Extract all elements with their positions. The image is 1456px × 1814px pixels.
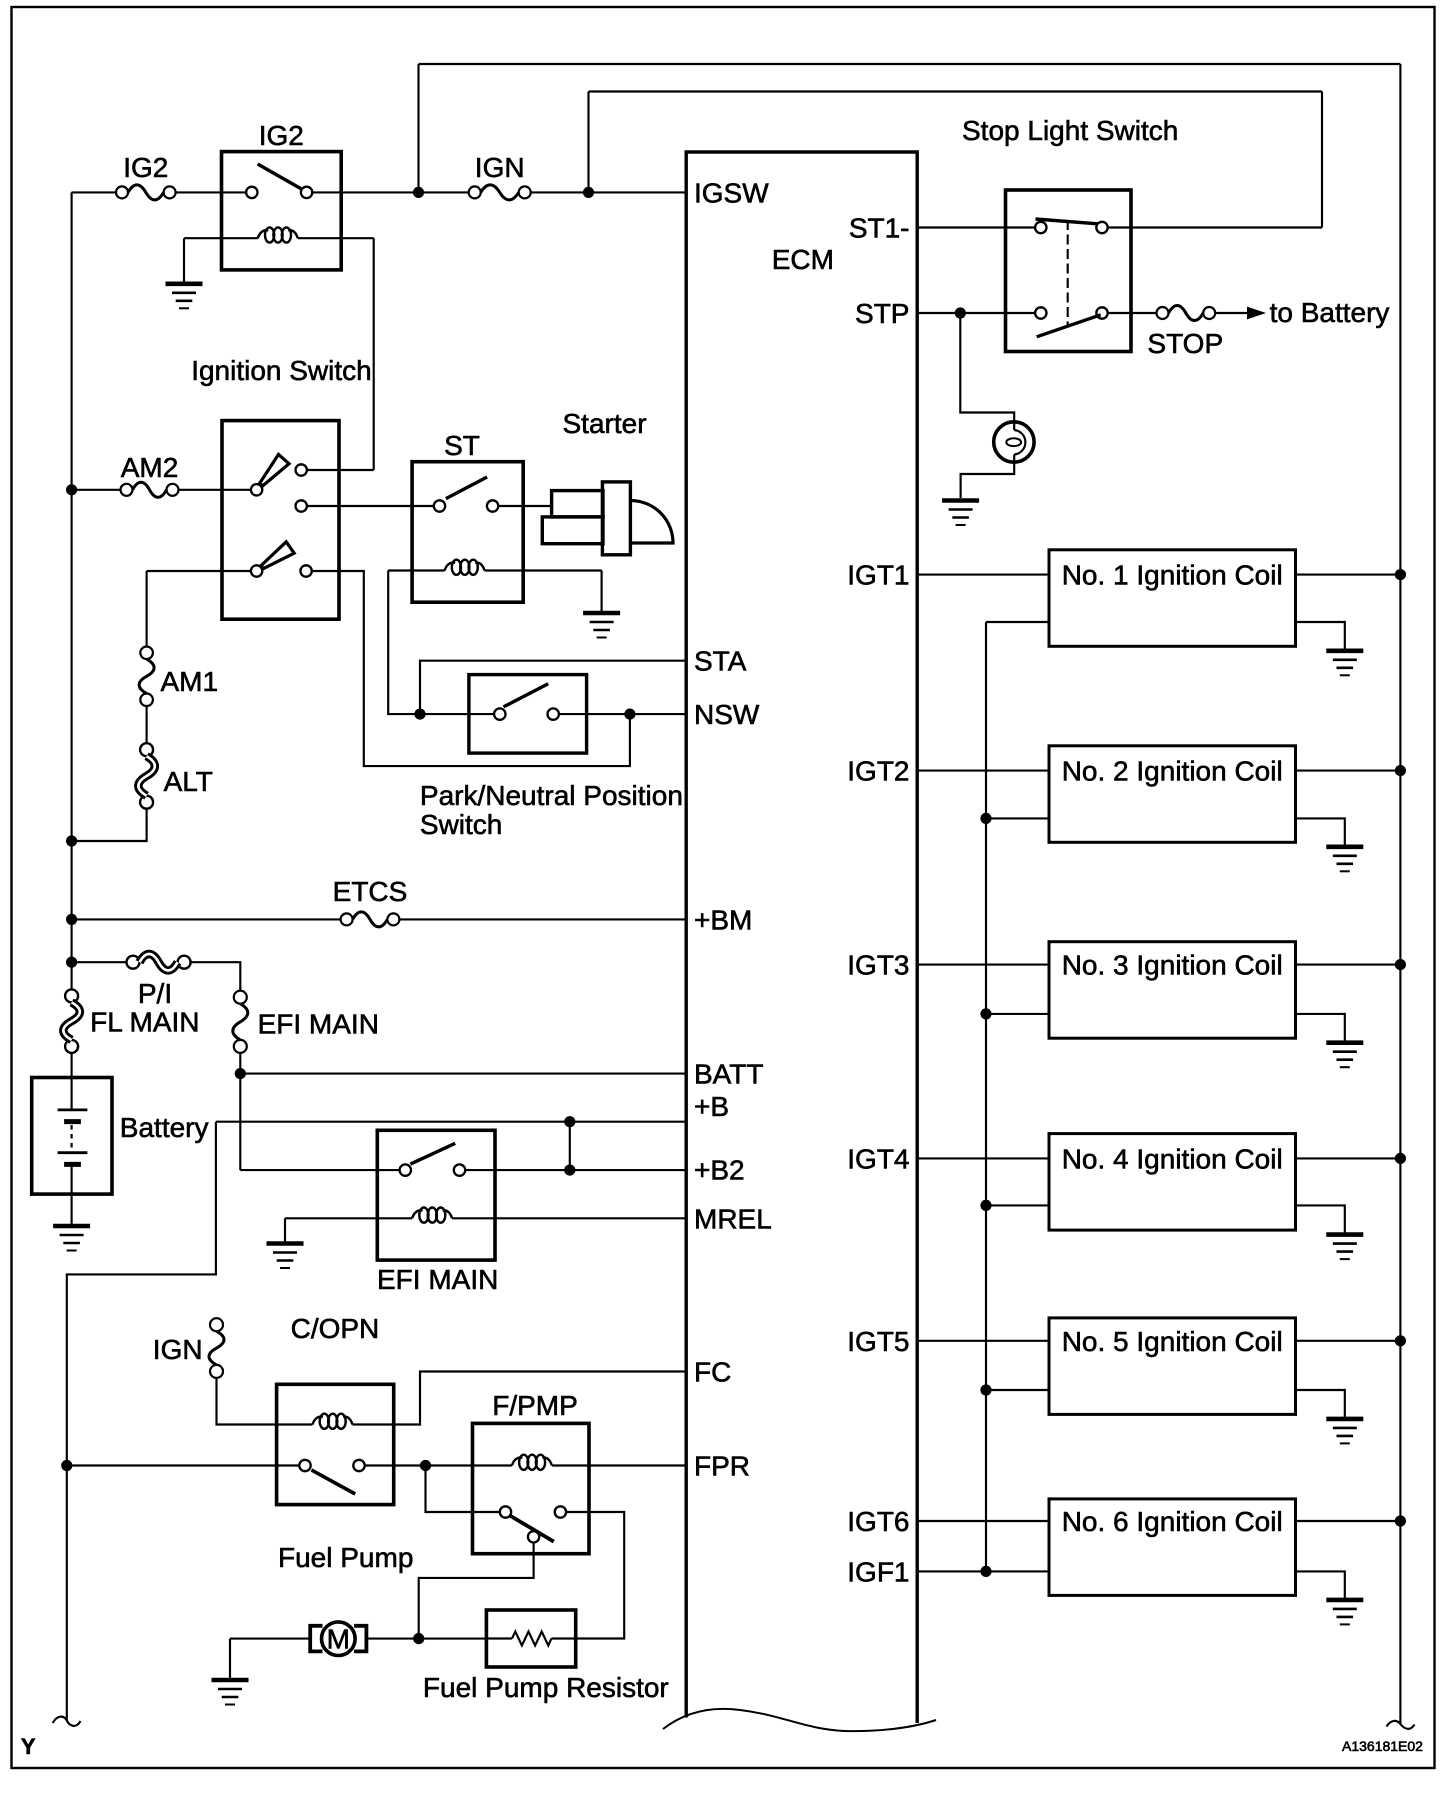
stop switch contact ST1 right [1096, 222, 1107, 233]
svg-text:+BM: +BM [694, 904, 752, 935]
svg-text:No. 1 Ignition Coil: No. 1 Ignition Coil [1062, 560, 1283, 591]
wire STOP fuse arrow [1215, 312, 1248, 314]
junction ALT return [66, 835, 77, 846]
junction NSW right [624, 709, 635, 720]
stop switch dashed link [1067, 220, 1069, 325]
relay ST contact right [487, 500, 498, 511]
park/neutral blade [504, 684, 549, 707]
fuel pump resistor box [486, 1610, 575, 1667]
svg-text:STA: STA [694, 646, 747, 677]
junction IGF bus 2 [980, 813, 991, 824]
fuse STOP [1157, 307, 1169, 319]
svg-text:ETCS: ETCS [333, 876, 408, 907]
junction right bus 5 [1395, 1335, 1406, 1346]
starter motor body upper [552, 491, 603, 517]
stop switch contact STP right [1096, 307, 1107, 318]
wire FPR to ECM [552, 1464, 686, 1466]
No. 4 ignition coil box [1049, 1134, 1296, 1231]
wire coil 2 IGF tap [986, 817, 1049, 819]
relay C/OPN contact right [353, 1460, 364, 1471]
wire IG2 coil ground stem [183, 238, 185, 282]
junction +B [564, 1116, 575, 1127]
junction right bus 2 [1395, 765, 1406, 776]
fuel pump motor bracket right [354, 1626, 366, 1652]
wire P/I to EFI fuse [191, 962, 241, 991]
wire ST to starter [498, 505, 551, 507]
ignition switch contact AM1 [251, 565, 262, 576]
wire P/I left [72, 961, 127, 963]
stop light switch box [1006, 190, 1132, 352]
wire F/PMP mid contact to pump [419, 1543, 534, 1639]
relay F/PMP blade [510, 1516, 554, 1542]
svg-text:IG2: IG2 [123, 152, 168, 183]
fuse ETCS [341, 913, 353, 925]
svg-text:STOP: STOP [1147, 328, 1223, 359]
wire ALT return [72, 809, 147, 841]
battery dashed link [70, 1125, 72, 1150]
relay F/PMP contact right [555, 1506, 566, 1517]
wire relay to +B2 [465, 1169, 686, 1171]
wire +B [216, 1121, 686, 1123]
ignition switch wedge row2 [261, 542, 294, 569]
wire C/OPN coil to FC [353, 1372, 687, 1425]
svg-text:IGT2: IGT2 [847, 756, 909, 787]
fusible link ALT [140, 743, 153, 756]
relay IG2 blade [258, 164, 302, 189]
stop light bulb [994, 422, 1034, 462]
wire coil 4 IGF tap [986, 1204, 1049, 1206]
wire coil 3 to right bus [1296, 964, 1401, 966]
wire +B down route [67, 1122, 216, 1720]
fuel pump motor bracket left [310, 1626, 322, 1652]
wire STA [420, 661, 686, 714]
svg-text:ST1-: ST1- [849, 213, 910, 244]
wire ST1 loop top [589, 90, 1323, 92]
wire ground to motor [230, 1638, 310, 1640]
starter solenoid [602, 482, 630, 555]
ignition switch contact AM2 [251, 484, 262, 495]
svg-text:STP: STP [855, 298, 909, 329]
relay IG2 coil wire right [298, 237, 374, 239]
battery cell1 plus plate [58, 1109, 88, 1112]
fuse AM1 [140, 647, 153, 660]
svg-text:Y: Y [21, 1734, 36, 1759]
svg-text:IGN: IGN [153, 1334, 203, 1365]
ground IG2 relay [166, 281, 203, 286]
svg-text:P/I: P/I [138, 978, 172, 1009]
junction FPR left [61, 1460, 72, 1471]
ignition switch wedge row1 [260, 454, 289, 486]
svg-text:IGF1: IGF1 [847, 1556, 909, 1587]
svg-text:A136181E02: A136181E02 [1342, 1738, 1423, 1754]
svg-text:AM1: AM1 [161, 666, 219, 697]
ground fuel pump motor [212, 1678, 249, 1683]
ground coil 4 [1326, 1232, 1363, 1237]
wire coil 4 ground [1296, 1205, 1345, 1232]
svg-text:F/PMP: F/PMP [492, 1390, 578, 1421]
wire IGT2 to coil [917, 770, 1049, 772]
wire coil 5 ground [1296, 1390, 1345, 1417]
stop switch contact STP left [1035, 307, 1046, 318]
fuel pump motor circle [322, 1622, 356, 1656]
junction right bus 4 [1395, 1153, 1406, 1164]
IGF bus vertical [985, 622, 987, 1571]
stop switch blade upper [1036, 219, 1098, 224]
fuse AM2 [121, 484, 133, 496]
wire IGT6 to coil [917, 1520, 1049, 1522]
svg-text:No. 6 Ignition Coil: No. 6 Ignition Coil [1062, 1506, 1283, 1537]
svg-text:ST: ST [444, 430, 480, 461]
relay C/OPN box [277, 1384, 394, 1504]
ignition switch contact IG2 out [296, 464, 307, 475]
svg-text:EFI MAIN: EFI MAIN [258, 1008, 379, 1039]
ground coil 5 [1326, 1417, 1363, 1422]
wire ST coil ground stem [601, 571, 603, 612]
relay F/PMP contact mid [528, 1531, 539, 1542]
wire AM1 to ALT [146, 706, 148, 743]
wire coil 3 ground [1296, 1014, 1345, 1041]
ignition switch contact ST row1 out [296, 500, 307, 511]
left bus lower [71, 1053, 73, 1078]
relay IG2 coil [258, 230, 269, 238]
wire AM2 fuse to switch [179, 489, 251, 491]
wire ST coil to NSW junction [388, 571, 415, 715]
wire NSW right [559, 713, 686, 715]
wire EFI fuse to relay [240, 1169, 399, 1171]
wire IG2 relay to ECM [312, 191, 468, 193]
wire ST1 loop right vertical [1321, 92, 1323, 228]
fuse IGN vertical [210, 1318, 223, 1331]
svg-text:+B2: +B2 [694, 1155, 745, 1186]
wire IG2 coil to ignition switch [373, 238, 375, 470]
junction ETCS [66, 914, 77, 925]
svg-text:ECM: ECM [772, 244, 834, 275]
battery bottom lead [71, 1164, 73, 1224]
bulb filament [1006, 438, 1021, 446]
relay ST contact left [434, 500, 445, 511]
stop switch blade lower [1037, 315, 1101, 337]
svg-text:IGT5: IGT5 [847, 1326, 909, 1357]
starter motor body lower [542, 517, 603, 544]
resistor zigzag [512, 1632, 551, 1646]
wire IGT4 to coil [917, 1157, 1049, 1159]
battery cell2 minus plate [64, 1162, 81, 1167]
svg-text:IGT4: IGT4 [847, 1143, 909, 1174]
park/neutral switch box [469, 675, 587, 754]
ground stop light bulb [942, 498, 979, 503]
wire switch to loop [1108, 226, 1322, 228]
junction IGF bus 6 [980, 1566, 991, 1577]
svg-text:M: M [327, 1624, 350, 1655]
relay ST coil [445, 563, 456, 571]
wire IGT3 to coil [917, 964, 1049, 966]
svg-text:EFI MAIN: EFI MAIN [377, 1264, 498, 1295]
fuse IG2 [116, 186, 128, 198]
wire motor to junction [366, 1638, 486, 1640]
wire ST1 loop left vertical [587, 92, 589, 193]
junction P/I [66, 957, 77, 968]
svg-text:IGN: IGN [475, 152, 525, 183]
wire ST1- to switch [917, 226, 1035, 228]
ground battery [53, 1224, 90, 1229]
wire row1 ST out to ST relay [307, 505, 434, 507]
wire coil 5 IGF tap [986, 1389, 1049, 1391]
svg-text:No. 3 Ignition Coil: No. 3 Ignition Coil [1062, 950, 1283, 981]
relay C/OPN blade [311, 1470, 355, 1494]
wire IGT1 to coil [917, 574, 1049, 576]
wire to F/PMP common [426, 1466, 500, 1513]
junction AM2 [66, 484, 77, 495]
svg-text:+B: +B [694, 1091, 729, 1122]
junction FPR mid [420, 1460, 431, 1471]
relay F/PMP coil [512, 1458, 523, 1466]
wire coil 2 ground [1296, 818, 1345, 844]
wire BATT to ECM [240, 1073, 686, 1075]
wire coil 6 to right bus [1296, 1520, 1401, 1522]
wire IGN bus top [419, 63, 1401, 65]
starter pinion arc [630, 500, 673, 543]
fuse EFI MAIN [234, 991, 247, 1004]
wire top branch vertical [417, 64, 419, 192]
junction right bus 6 [1395, 1515, 1406, 1526]
resistor lead left [486, 1637, 512, 1639]
wire coil 3 IGF tap [986, 1013, 1049, 1015]
wire ETCS left [72, 918, 341, 920]
No. 2 ignition coil box [1049, 746, 1296, 843]
wire IG2-out to coil drop [307, 469, 374, 471]
svg-text:Switch: Switch [420, 809, 502, 840]
wire coil 1 to right bus [1296, 574, 1401, 576]
junction BATT [235, 1068, 246, 1079]
wire +B to +B2 jumper [569, 1122, 571, 1170]
right bus break tilde [1387, 1721, 1415, 1729]
wire AM1 to switch [147, 570, 251, 572]
wire bulb to ground [961, 455, 1015, 499]
wire STP to bulb [960, 313, 1014, 430]
svg-text:FL MAIN: FL MAIN [90, 1007, 199, 1038]
svg-text:IGT1: IGT1 [847, 560, 909, 591]
svg-text:AM2: AM2 [121, 452, 179, 483]
No. 3 ignition coil box [1049, 942, 1296, 1038]
No. 1 ignition coil box [1049, 550, 1296, 647]
svg-text:IG2: IG2 [259, 120, 304, 151]
ground coil 1 [1326, 648, 1363, 653]
wire FPR middle [365, 1464, 512, 1466]
relay EFI MAIN contact right [454, 1164, 465, 1175]
ground coil 6 [1326, 1598, 1363, 1603]
relay C/OPN coil [313, 1417, 324, 1425]
svg-text:No. 4 Ignition Coil: No. 4 Ignition Coil [1062, 1143, 1283, 1174]
park/neutral contact left [494, 708, 505, 719]
svg-text:FPR: FPR [694, 1451, 750, 1482]
svg-text:No. 2 Ignition Coil: No. 2 Ignition Coil [1062, 756, 1283, 787]
resistor lead right [551, 1637, 575, 1639]
fusible link P/I [127, 956, 140, 969]
wire switch to AM1 fuse [146, 571, 148, 647]
junction pump wire [413, 1633, 424, 1644]
relay ST coil wire left [388, 569, 444, 571]
svg-text:IGSW: IGSW [694, 177, 769, 208]
wire motor ground stem [229, 1639, 231, 1678]
wire ST2 out routing [312, 571, 630, 766]
wire coil 6 ground [1296, 1571, 1345, 1598]
relay F/PMP contact left [500, 1506, 511, 1517]
wire FPR left [67, 1464, 299, 1466]
ground ST relay [583, 611, 620, 616]
relay C/OPN contact left [299, 1460, 310, 1471]
wire IGN fuse to ECM IGSW [531, 191, 687, 193]
battery box [32, 1078, 112, 1195]
ground EFI MAIN relay [267, 1241, 304, 1246]
relay ST coil wire right [485, 569, 602, 571]
wire IGF1 to coil 6 [917, 1570, 1049, 1572]
svg-text:to Battery: to Battery [1270, 297, 1390, 328]
ground coil 2 [1326, 844, 1363, 849]
junction IGF bus 3 [980, 1008, 991, 1019]
svg-text:Battery: Battery [120, 1112, 209, 1143]
fusible link FL MAIN [65, 989, 78, 1002]
svg-text:Park/Neutral Position: Park/Neutral Position [420, 780, 683, 811]
wire AM2 bus to fuse [72, 489, 121, 491]
arrowhead to battery [1247, 307, 1266, 320]
wire IGN fuse to C/OPN coil [217, 1378, 313, 1425]
wire ETCS to ECM +BM [399, 918, 686, 920]
svg-text:NSW: NSW [694, 699, 760, 730]
relay IG2 contact right [301, 187, 312, 198]
stop switch contact ST1 left [1035, 222, 1046, 233]
wire IG2 fuse to relay [176, 191, 247, 193]
svg-text:MREL: MREL [694, 1204, 772, 1235]
svg-text:BATT: BATT [694, 1059, 763, 1090]
ECM box [686, 152, 917, 1723]
left bus upper [71, 192, 73, 989]
No. 5 ignition coil box [1049, 1318, 1296, 1415]
wire IG2 row left [72, 191, 116, 193]
svg-text:ALT: ALT [164, 766, 213, 797]
No. 6 ignition coil box [1049, 1499, 1296, 1596]
junction +B2 [564, 1165, 575, 1176]
relay EFI MAIN contact left [400, 1164, 411, 1175]
ECM bottom break wave [663, 1709, 936, 1731]
svg-text:FC: FC [694, 1357, 731, 1388]
junction right bus 3 [1395, 959, 1406, 970]
relay EFI MAIN blade [410, 1143, 455, 1164]
battery top lead [71, 1078, 73, 1110]
relay IG2 contact left [246, 187, 257, 198]
relay ST box [412, 462, 523, 603]
ground coil 3 [1326, 1040, 1363, 1045]
wire switch to STOP fuse [1108, 312, 1157, 314]
battery cell1 minus plate [64, 1119, 81, 1124]
relay EFI MAIN coil wire left [285, 1217, 412, 1219]
junction NSW left [414, 709, 425, 720]
relay EFI MAIN coil [412, 1210, 423, 1218]
junction STP [955, 307, 966, 318]
wire IGT5 to coil [917, 1340, 1049, 1342]
wire F/PMP right contact to resistor [566, 1512, 624, 1639]
wire EFI coil ground stem [284, 1218, 286, 1241]
junction right bus 1 [1395, 569, 1406, 580]
junction IGF bus 4 [980, 1200, 991, 1211]
svg-text:IGT3: IGT3 [847, 950, 909, 981]
wire coil 4 to right bus [1296, 1157, 1401, 1159]
left bus break tilde [53, 1717, 81, 1726]
wire coil 1 ground [1296, 622, 1345, 649]
wire MREL to ECM [452, 1217, 686, 1219]
ignition switch contact ST2 out [300, 565, 311, 576]
svg-text:No. 5 Ignition Coil: No. 5 Ignition Coil [1062, 1326, 1283, 1357]
relay F/PMP box [473, 1423, 590, 1553]
relay ST blade [446, 477, 487, 499]
wire coil 5 to right bus [1296, 1340, 1401, 1342]
junction on IGSW wire A [413, 187, 424, 198]
svg-text:IGT6: IGT6 [847, 1506, 909, 1537]
wire EFI fuse down [239, 1053, 241, 1170]
svg-text:C/OPN: C/OPN [291, 1313, 380, 1344]
svg-text:Stop Light Switch: Stop Light Switch [962, 115, 1178, 146]
bulb filament arc [1014, 430, 1025, 455]
battery cell2 plus plate [58, 1151, 88, 1154]
wire coil 2 to right bus [1296, 770, 1401, 772]
wire STP to switch [917, 312, 1035, 314]
svg-text:Fuel Pump Resistor: Fuel Pump Resistor [423, 1672, 669, 1703]
svg-text:Fuel Pump: Fuel Pump [278, 1542, 413, 1573]
park/neutral contact right [548, 708, 559, 719]
right bus vertical [1399, 64, 1401, 1724]
wire NSW left [420, 713, 494, 715]
svg-text:Starter: Starter [563, 408, 647, 439]
junction on IGSW wire B [583, 187, 594, 198]
ignition switch box [222, 421, 339, 620]
relay EFI MAIN box [377, 1130, 495, 1260]
junction IGF bus 5 [980, 1384, 991, 1395]
wire coil 1 IGF tap [986, 621, 1049, 623]
relay IG2 coil wire left [184, 237, 258, 239]
svg-text:Ignition Switch: Ignition Switch [191, 355, 372, 386]
fuse IGN [469, 186, 481, 198]
relay IG2 box [222, 152, 342, 270]
